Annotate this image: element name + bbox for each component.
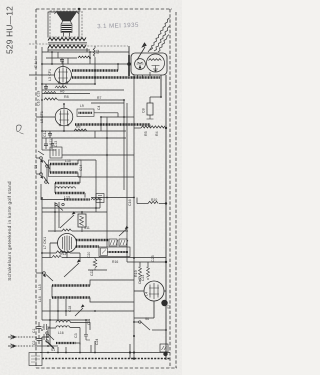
coil L2 loops (56, 321, 70, 323)
wires (50, 280, 134, 345)
svg-text:C20: C20 (87, 252, 91, 258)
handwritten Q mark (16, 125, 23, 134)
arrow to annotation (137, 43, 146, 60)
wire h262 (127, 261, 166, 263)
junction dots (41, 99, 43, 101)
resistor R17 (vertical) (93, 258, 97, 271)
wire v (51, 52, 53, 64)
wire winding to right (94, 113, 124, 117)
coil pair box (49, 160, 82, 177)
wire (47, 48, 49, 52)
wire (128, 46, 130, 56)
resistor R16 (78, 56, 90, 58)
svg-text:S2: S2 (96, 50, 100, 54)
switch arrow on y232 (119, 229, 127, 237)
wire R4R5 lead (134, 127, 141, 129)
tube L3/CF1 (29, 61, 72, 84)
junction dots lower (65, 310, 67, 312)
aerial terminal (8, 335, 36, 348)
capacitor C12 (48, 131, 52, 138)
wire v (57, 52, 59, 58)
capacitor C8 (box) (147, 103, 153, 115)
coil L13 loops (55, 187, 75, 189)
wire left rail (41, 47, 43, 100)
tube L3 pins (58, 82, 60, 84)
svg-text:G.L.4: G.L.4 (34, 59, 38, 68)
wires (42, 198, 128, 253)
wire h212 (42, 211, 107, 213)
capacitor C9 (44, 84, 48, 90)
wire speaker top to border (48, 9, 79, 38)
core box A (109, 239, 117, 246)
svg-text:R16: R16 (112, 260, 118, 264)
svg-text:L10: L10 (65, 159, 71, 163)
coil winding row (75, 123, 150, 126)
junction (81, 211, 83, 213)
svg-text:S7: S7 (167, 305, 171, 309)
transformer coil box (99, 247, 130, 257)
winding from CK1 lower (76, 245, 99, 247)
switch S1 lever (46, 341, 54, 349)
wire (42, 319, 90, 321)
wires below box (129, 46, 166, 360)
chassis bus line 1 (40, 352, 170, 354)
svg-text:C12: C12 (43, 130, 47, 137)
chassis hatched line (42, 358, 170, 360)
winding from CK1 upper (76, 239, 109, 241)
svg-text:L3 CF1: L3 CF1 (48, 69, 52, 81)
input caps C1 C2 (36, 322, 48, 346)
capacitor block C17 (96, 194, 104, 203)
capacitor C16b (60, 58, 64, 64)
wire (86, 48, 88, 52)
junction dots cluster (47, 336, 49, 338)
wire from windings (42, 58, 150, 94)
svg-text:R9: R9 (76, 125, 80, 129)
wire v124 (123, 100, 125, 190)
svg-text:C21: C21 (87, 319, 91, 325)
cap cluster box (50, 147, 62, 158)
pot arrowhead (72, 211, 76, 214)
svg-text:C22: C22 (90, 270, 94, 276)
resistor small (91, 198, 100, 200)
coil L15 winding (52, 296, 90, 298)
small S box (101, 248, 108, 256)
svg-text:R7: R7 (97, 96, 101, 100)
resistor R4 R5 (141, 126, 165, 128)
resistor R13 (52, 255, 62, 257)
small zigzag R20 (147, 267, 150, 277)
resistor R7 (55, 86, 67, 88)
wire stubs (42, 327, 50, 345)
wire tie (129, 344, 131, 359)
wires coil block (41, 159, 134, 212)
coil L10 winding (50, 163, 78, 165)
svg-text:C25: C25 (151, 255, 155, 262)
wire (149, 97, 151, 103)
coil L12 winding (55, 182, 80, 184)
wire h311 (42, 310, 134, 312)
wire v (67, 58, 69, 64)
wire h155 (62, 154, 134, 156)
junction (165, 261, 167, 263)
wire h103 (91, 102, 124, 104)
wire h3 (42, 63, 131, 65)
svg-text:CY2: CY2 (138, 277, 142, 284)
core box B (119, 239, 127, 246)
wire bus right (165, 75, 167, 360)
output transformer primary (48, 38, 87, 49)
extra small labels (34, 96, 157, 345)
resistor R8 (44, 98, 58, 100)
svg-text:C16: C16 (128, 199, 132, 206)
svg-text:C24: C24 (95, 339, 99, 345)
svg-text:R10: R10 (151, 198, 157, 202)
switch contacts S3 (36, 151, 50, 184)
coil L1 winding (56, 342, 76, 344)
svg-text:S11: S11 (84, 226, 90, 230)
svg-text:C19: C19 (37, 91, 41, 97)
svg-text:3.1 MEI 1935: 3.1 MEI 1935 (97, 22, 139, 30)
svg-text:C13: C13 (54, 141, 58, 147)
svg-text:C11: C11 (49, 139, 53, 145)
tube L5 pins (59, 124, 61, 126)
dark junction blob S7 (161, 300, 167, 306)
wire v134 (133, 75, 135, 360)
switch S1 contacts (46, 332, 54, 348)
svg-text:R5: R5 (144, 131, 148, 136)
dashed chassis line top (29, 44, 128, 46)
wire h258 (110, 257, 166, 259)
junction dots bus (133, 335, 135, 337)
svg-text:S3: S3 (34, 165, 38, 169)
coil L13 winding (55, 192, 85, 194)
resistor R14 (56, 251, 70, 253)
speaker dashed enclosure (50, 11, 82, 37)
capacitor C13 cluster (42, 138, 56, 150)
wires (42, 243, 110, 258)
speaker cone (dark) (56, 12, 77, 22)
coil box winding (77, 109, 94, 117)
wire h270 (88, 269, 107, 271)
wire (140, 262, 148, 267)
junction blob bottom bus (163, 352, 167, 356)
svg-text:C10: C10 (37, 99, 41, 106)
svg-text:C2: C2 (32, 341, 36, 345)
wires (42, 323, 95, 353)
pot arrow (64, 263, 79, 277)
lamp stubs (138, 75, 143, 79)
coil L14 winding (52, 284, 90, 286)
switch contacts (55, 203, 64, 210)
svg-text:C4: C4 (97, 106, 101, 110)
wire to C8 (150, 96, 161, 98)
wire v86 (85, 320, 87, 331)
svg-text:R13: R13 (60, 252, 66, 256)
svg-text:L16: L16 (58, 331, 64, 335)
border frame (dashed) (36, 9, 177, 368)
svg-text:L9: L9 (80, 104, 84, 108)
switch arrow on h311 (75, 308, 83, 316)
svg-text:L15: L15 (38, 284, 42, 290)
junction top (78, 8, 80, 10)
svg-text:529 HU—12: 529 HU—12 (5, 6, 15, 54)
capacitor C28 small box (160, 344, 168, 352)
coil winding (IF secondary long) (72, 76, 160, 79)
wire (160, 75, 162, 97)
svg-text:S6: S6 (145, 317, 149, 321)
wire h2 (46, 57, 77, 59)
pilot lamp (135, 59, 146, 70)
svg-text:C3: C3 (74, 333, 78, 338)
svg-text:R19: R19 (134, 270, 138, 277)
switch S5 (36, 272, 53, 281)
svg-text:L4: L4 (145, 292, 149, 296)
resistor R12 (48, 229, 82, 231)
svg-text:R4: R4 (155, 131, 159, 136)
junction (127, 62, 131, 66)
resistor R9 (74, 129, 87, 131)
handwritten annotation (diagonal scribble) (148, 18, 170, 52)
svg-text:C14: C14 (79, 165, 83, 171)
capacitor C29 (84, 331, 90, 340)
wire h1 (42, 51, 129, 53)
tube box (131, 53, 167, 75)
small zigzag R19 (139, 267, 142, 277)
capacitor C30 plates (44, 324, 47, 340)
svg-text:C18: C18 (68, 306, 72, 312)
speaker coil (61, 21, 72, 37)
coil L16 (56, 326, 70, 328)
tube AM2 (147, 54, 165, 72)
tube L5 EF1 (36, 104, 73, 126)
wire v127 (126, 103, 128, 262)
switch S6 (141, 322, 150, 330)
resistor R2 (vertical small) (93, 46, 95, 58)
svg-text:L16: L16 (38, 296, 42, 302)
resistor box R11 (78, 214, 86, 227)
pot arrow (60, 215, 74, 228)
resistor R10 (137, 203, 148, 205)
svg-text:C1: C1 (32, 329, 36, 333)
wire v (89, 52, 91, 64)
coil L11 winding (50, 171, 78, 173)
wire (58, 99, 124, 101)
winding row small (64, 198, 90, 200)
svg-text:R8: R8 (64, 95, 69, 99)
wire h50 (48, 49, 90, 51)
paper background (0, 0, 182, 375)
svg-text:C8: C8 (142, 108, 146, 113)
svg-text:R6: R6 (60, 90, 64, 94)
wire h208 (42, 207, 100, 209)
label box (29, 353, 42, 366)
wire h117 short (124, 116, 134, 118)
svg-text:L7 CK1: L7 CK1 (43, 237, 47, 249)
pot arrowhead (77, 259, 81, 262)
wire h197 (91, 197, 134, 199)
junction dots (51, 51, 53, 53)
svg-text:Schakelaars geteekend in korte: Schakelaars geteekend in korte golf stan… (7, 181, 13, 281)
coil winding (IF primary) (72, 69, 118, 72)
wires (42, 100, 150, 138)
junction (165, 127, 167, 129)
wire v107 (106, 118, 108, 248)
